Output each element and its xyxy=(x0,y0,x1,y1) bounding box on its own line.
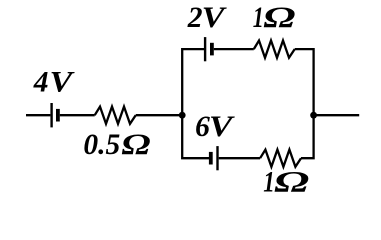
label 1ohm top xyxy=(253,2,296,34)
label 2V xyxy=(187,2,227,34)
svg-text:Ω: Ω xyxy=(274,167,309,199)
wire battery V3 to resistor R3 xyxy=(219,157,260,159)
label 6V xyxy=(195,111,235,143)
wire right terminal stub xyxy=(314,114,360,116)
wire left vertical branch with top-left and bottom-left corners xyxy=(182,49,210,158)
label 1ohm bottom xyxy=(263,167,309,199)
svg-text:1: 1 xyxy=(253,2,264,34)
svg-text:1: 1 xyxy=(263,167,275,199)
wire battery V2 to resistor R2 xyxy=(214,48,254,50)
label 0.5ohm xyxy=(83,129,150,161)
svg-text:V: V xyxy=(50,67,75,99)
svg-text:V: V xyxy=(202,2,227,34)
resistor R2 1ohm top xyxy=(254,41,295,58)
label 4V xyxy=(33,67,75,99)
battery V2 2V xyxy=(205,37,212,61)
wire resistor R1 to node A xyxy=(136,114,183,116)
svg-text:Ω: Ω xyxy=(122,129,151,161)
battery V3 6V xyxy=(211,146,218,170)
node A junction dot xyxy=(179,112,186,119)
svg-text:6: 6 xyxy=(195,111,210,143)
node B junction dot xyxy=(310,112,317,119)
svg-text:4: 4 xyxy=(33,67,49,99)
wire battery V1 to resistor R1 xyxy=(60,114,95,116)
battery V1 4V xyxy=(52,103,58,127)
svg-text:2: 2 xyxy=(187,2,203,34)
wire left terminal stub xyxy=(26,114,50,116)
svg-text:V: V xyxy=(209,111,235,143)
resistor R3 1ohm bottom xyxy=(260,150,301,167)
svg-text:0.5: 0.5 xyxy=(83,129,120,161)
wire right vertical branch with top-right and bottom-right corners xyxy=(295,49,314,158)
svg-text:Ω: Ω xyxy=(263,2,295,34)
resistor R1 0.5ohm xyxy=(95,107,136,124)
